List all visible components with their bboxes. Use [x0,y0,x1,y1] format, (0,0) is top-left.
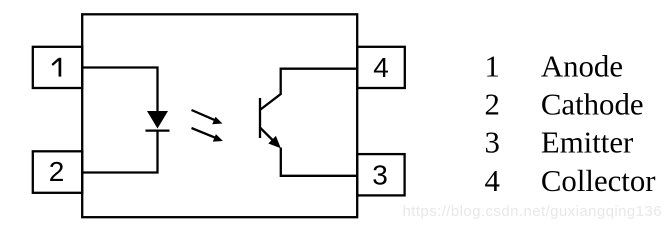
svg-text:https://blog.csdn.net/guxiangq: https://blog.csdn.net/guxiangqing136 [403,203,662,220]
svg-text:2: 2 [485,88,500,122]
svg-text:Cathode: Cathode [541,88,644,122]
svg-text:3: 3 [372,160,388,191]
svg-text:Emitter: Emitter [541,126,633,160]
svg-text:4: 4 [485,164,500,198]
svg-text:Collector: Collector [541,164,656,198]
svg-text:Anode: Anode [541,50,623,84]
svg-text:4: 4 [373,52,389,83]
svg-text:1: 1 [485,50,500,84]
svg-text:3: 3 [485,126,500,160]
svg-text:2: 2 [49,156,65,187]
